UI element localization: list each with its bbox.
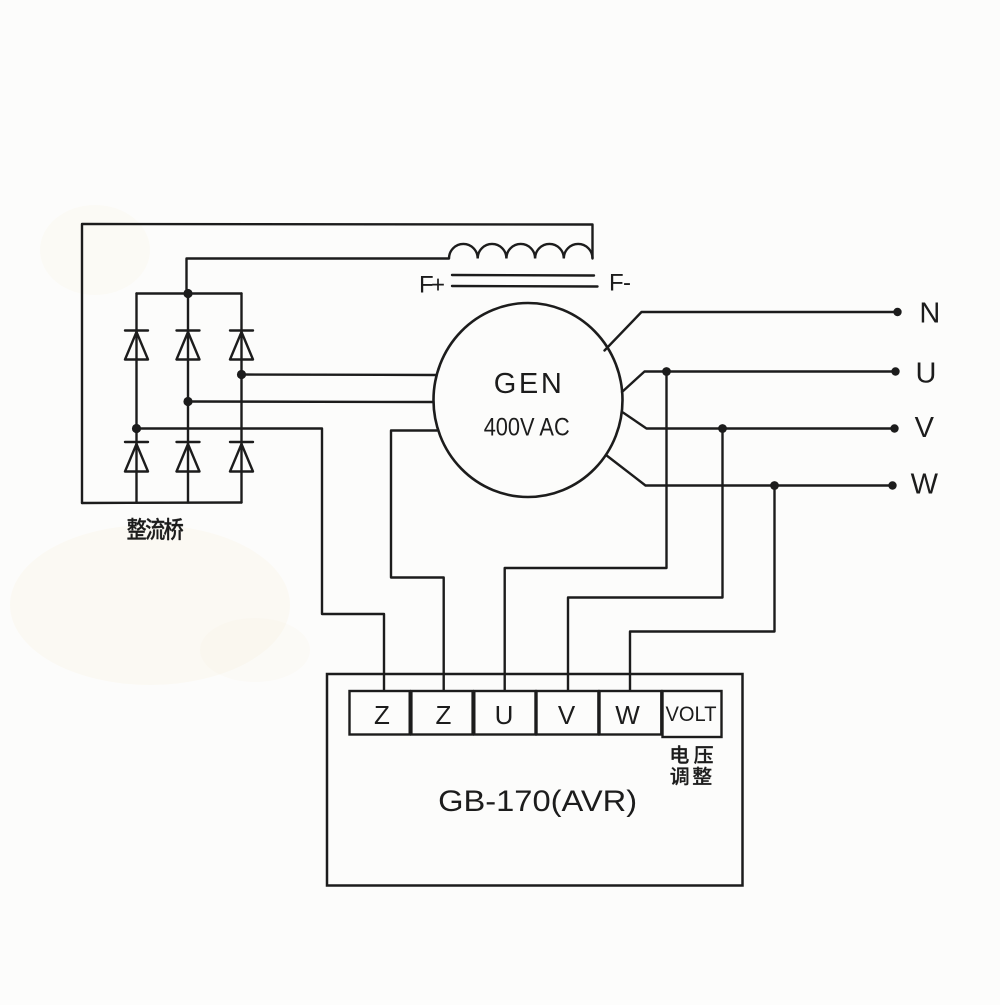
generator GEN 400V AC bbox=[434, 303, 623, 497]
node positive junction on top bus bbox=[183, 289, 192, 298]
wire bridge left tap to AVR terminal Z1 bbox=[137, 429, 385, 692]
node V terminal dot bbox=[890, 424, 898, 432]
wire generator auxiliary winding to AVR terminal Z2 bbox=[391, 431, 444, 692]
wire bottom bus of rectifier (negative rail) bbox=[82, 501, 242, 504]
wire F+ lead from bridge positive junction to coil left end bbox=[187, 259, 450, 294]
diode D6 bbox=[230, 442, 253, 472]
label voltage adjust (CJK) line 2 bbox=[671, 767, 712, 786]
svg-text:U: U bbox=[916, 357, 937, 389]
wire V sense to AVR terminal V bbox=[568, 429, 723, 692]
node bridge AC tap right column bbox=[237, 370, 246, 379]
diode D5 bbox=[177, 442, 200, 472]
wire F- loop: left border, top border, down to coil right end bbox=[82, 224, 593, 503]
node V sense junction bbox=[718, 424, 727, 433]
node W terminal dot bbox=[888, 481, 896, 489]
wire phase U from generator bbox=[622, 372, 896, 393]
node W sense junction bbox=[770, 481, 779, 490]
core line upper bbox=[452, 274, 594, 277]
label rectifier bridge (CJK) bbox=[127, 518, 183, 540]
diode D2 bbox=[177, 331, 200, 360]
wire W sense to AVR terminal W bbox=[630, 486, 775, 692]
diode D3 bbox=[230, 331, 253, 360]
terminal Z (z2) bbox=[411, 691, 472, 735]
terminal V (v) bbox=[537, 691, 599, 735]
node N terminal dot bbox=[893, 308, 901, 316]
terminal Z (z1) bbox=[350, 691, 410, 735]
AVR regulator box GB-170 bbox=[327, 674, 743, 886]
svg-text:GB-170(AVR): GB-170(AVR) bbox=[438, 785, 637, 818]
node bridge AC tap middle column bbox=[183, 397, 192, 406]
svg-text:F-: F- bbox=[609, 270, 631, 297]
svg-text:W: W bbox=[615, 700, 640, 730]
diode D1 bbox=[125, 331, 148, 360]
terminal W (w) bbox=[600, 691, 662, 735]
svg-text:Z: Z bbox=[436, 700, 452, 730]
svg-text:F+: F+ bbox=[419, 272, 445, 299]
wire bridge middle tap to generator stator bbox=[188, 400, 433, 403]
svg-text:V: V bbox=[558, 700, 576, 730]
terminal U (u) bbox=[474, 691, 535, 735]
wire phase W from generator bbox=[606, 455, 893, 486]
node bridge AC tap left column bbox=[132, 424, 141, 433]
svg-text:VOLT: VOLT bbox=[666, 703, 717, 726]
svg-text:W: W bbox=[911, 468, 939, 500]
svg-text:GEN: GEN bbox=[494, 368, 562, 400]
node U sense junction bbox=[662, 367, 671, 376]
wire U sense to AVR terminal U bbox=[505, 372, 667, 692]
inductor field winding (exciter coil) bbox=[449, 244, 593, 259]
svg-text:V: V bbox=[915, 412, 935, 444]
wire bridge column 3 bbox=[240, 294, 242, 503]
svg-text:N: N bbox=[919, 298, 940, 330]
label voltage adjust (CJK) line 1 bbox=[672, 745, 713, 764]
wire top bus of rectifier (positive rail) bbox=[137, 292, 242, 294]
wire bridge column 2 bbox=[187, 294, 189, 503]
wire phase V from generator bbox=[623, 413, 895, 429]
wire bridge column 1 bbox=[135, 294, 137, 503]
core line lower bbox=[452, 285, 598, 288]
terminal VOLT bbox=[663, 691, 722, 737]
svg-text:U: U bbox=[495, 700, 514, 730]
node U terminal dot bbox=[891, 367, 899, 375]
diode D4 bbox=[125, 442, 148, 472]
svg-text:Z: Z bbox=[374, 700, 390, 730]
wire phase N from generator bbox=[605, 312, 898, 351]
svg-text:400V AC: 400V AC bbox=[484, 414, 570, 442]
wire bridge right tap to generator stator bbox=[242, 373, 436, 376]
